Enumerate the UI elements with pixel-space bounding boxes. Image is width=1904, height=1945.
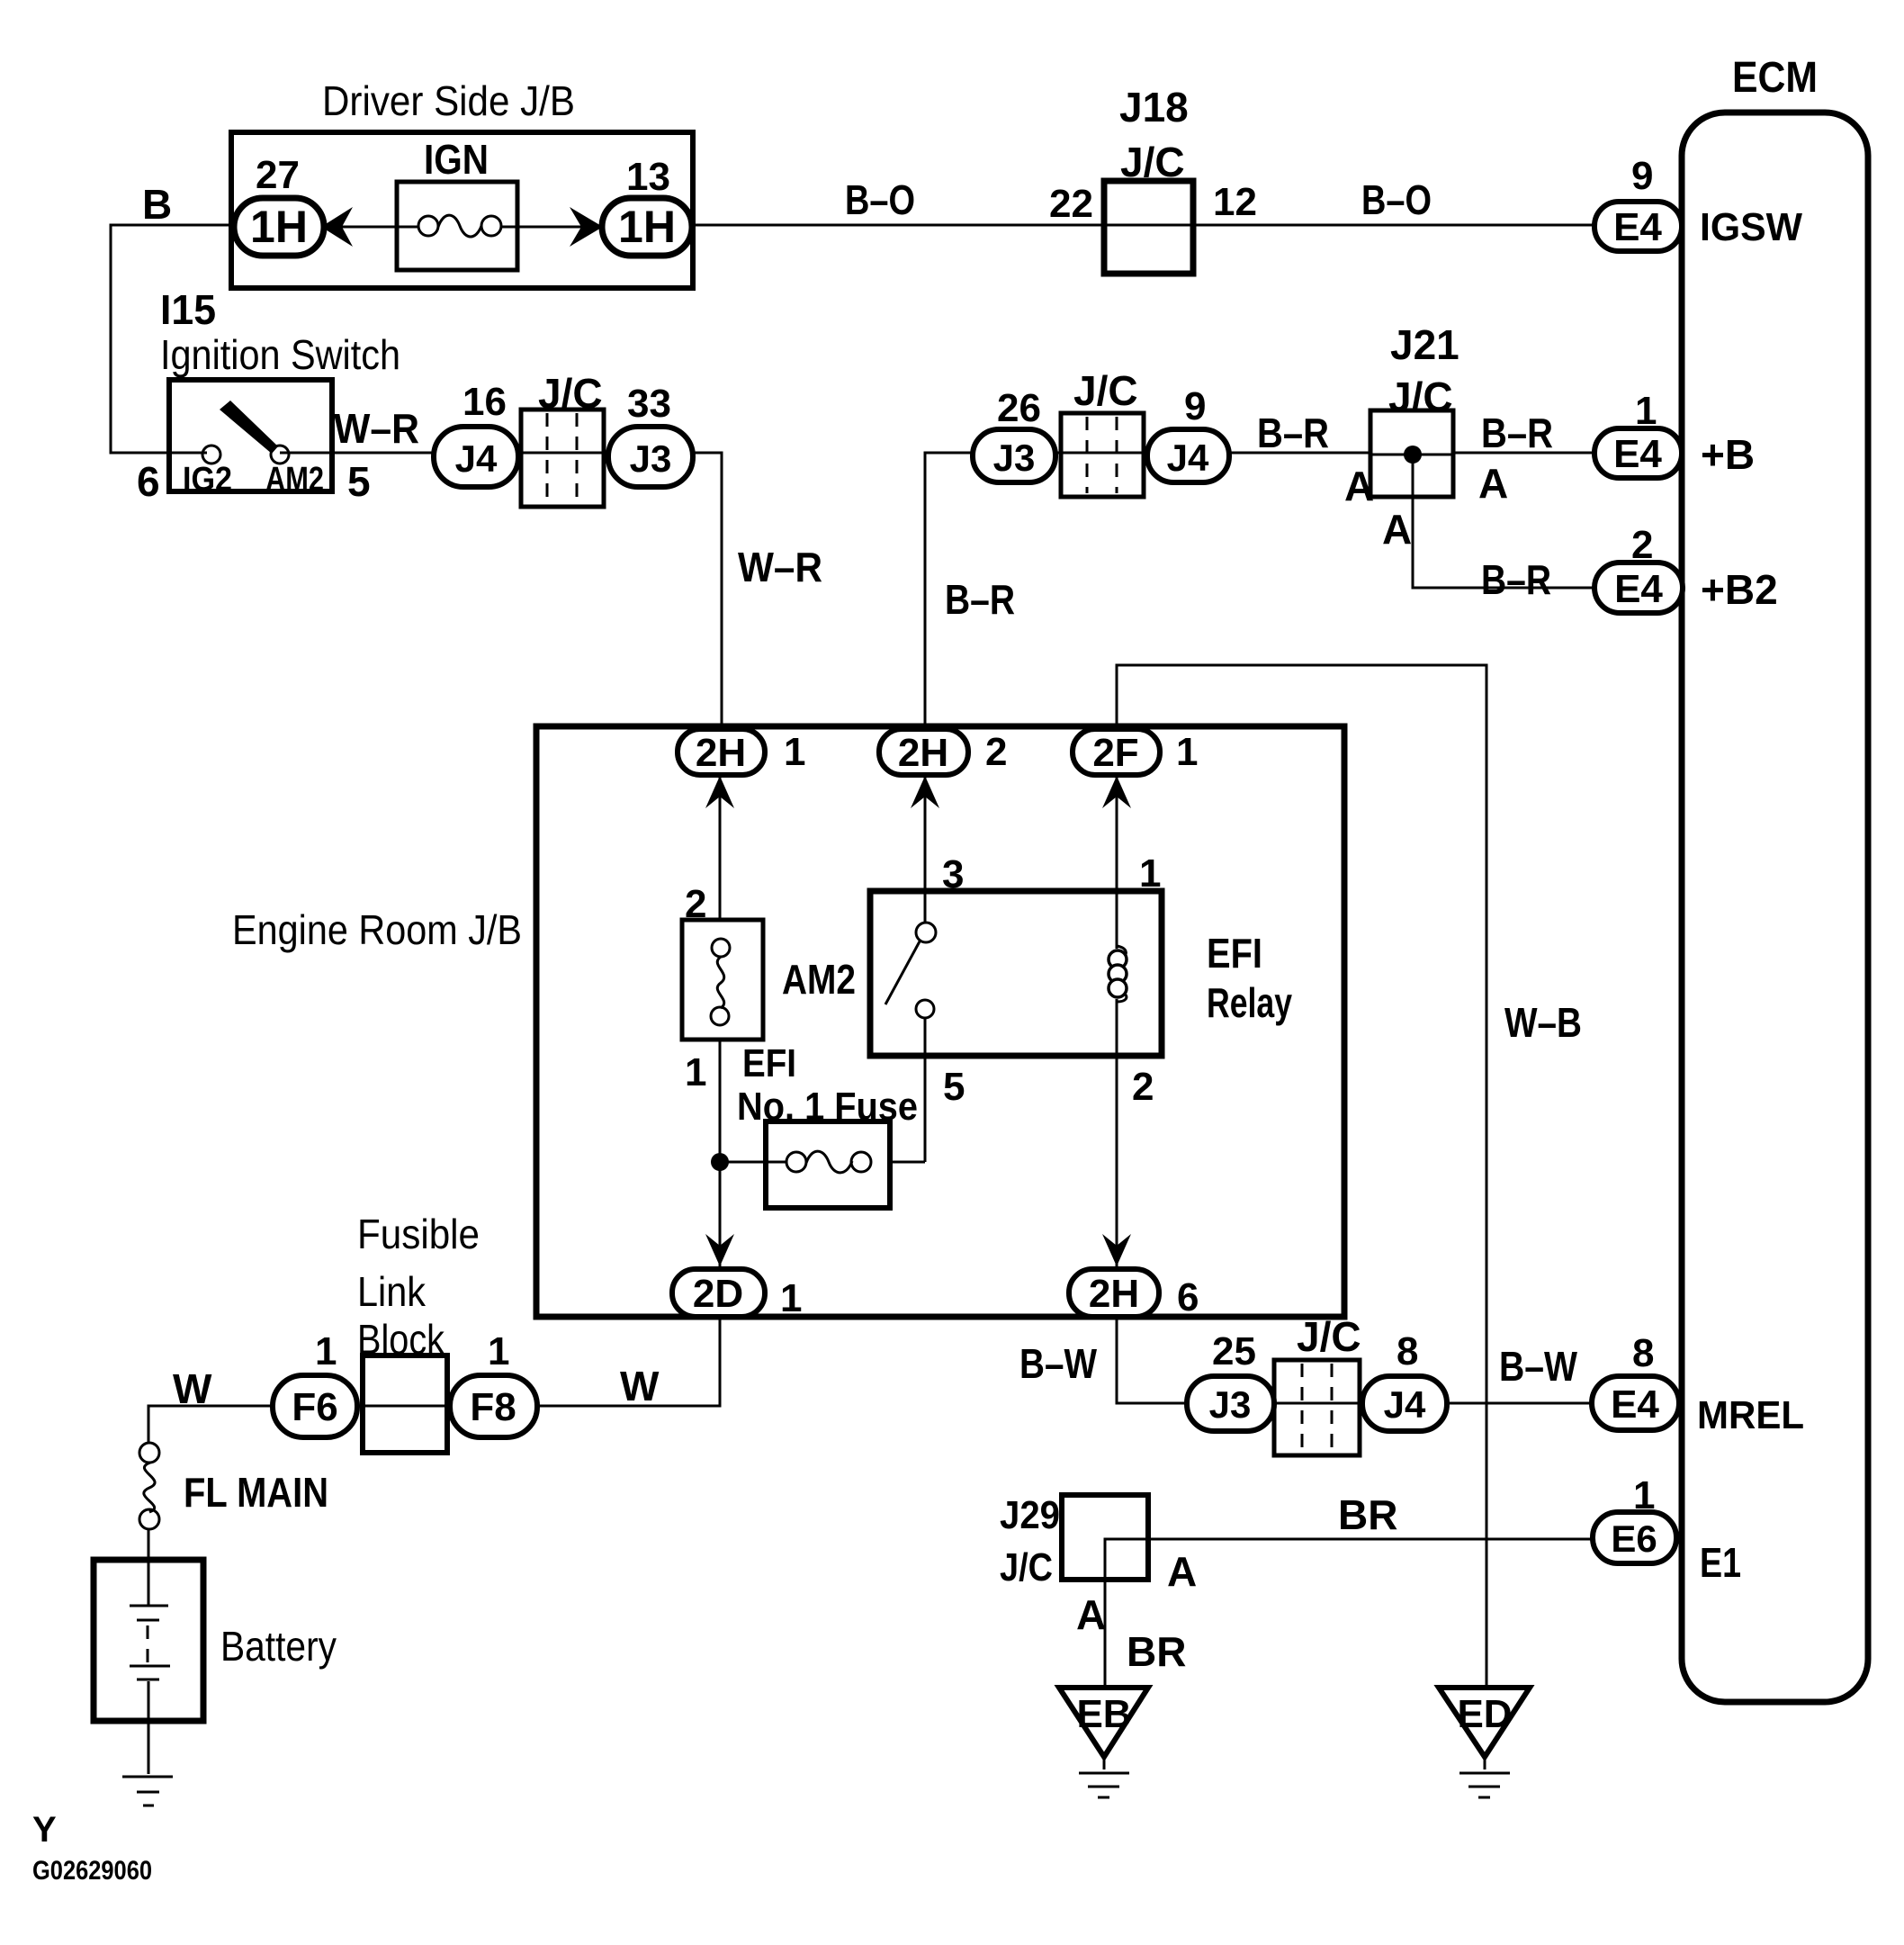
- svg-text:A: A: [1167, 1548, 1197, 1595]
- svg-text:8: 8: [1632, 1331, 1654, 1375]
- svg-text:J4: J4: [1167, 437, 1209, 479]
- junction J21 box: [1370, 410, 1453, 497]
- svg-text:F6: F6: [292, 1385, 337, 1429]
- wire W-R J3 down to 2H1: [691, 453, 722, 734]
- svg-text:B–R: B–R: [1481, 410, 1553, 456]
- svg-text:E4: E4: [1613, 432, 1662, 476]
- connector E6 pin1: [1593, 1512, 1676, 1563]
- svg-text:EB: EB: [1076, 1692, 1131, 1736]
- connector 2D pin1: [672, 1269, 765, 1317]
- svg-text:J/C: J/C: [1388, 374, 1453, 420]
- svg-text:2: 2: [1631, 523, 1653, 567]
- wire ignition switch AM2 to J4: [280, 452, 436, 455]
- svg-text:ECM: ECM: [1732, 54, 1818, 102]
- dashes J/C 16-33: [546, 413, 549, 503]
- svg-text:FL MAIN: FL MAIN: [184, 1469, 328, 1516]
- svg-text:+B2: +B2: [1701, 566, 1778, 613]
- connector J3 pin33: [608, 427, 693, 487]
- svg-text:1: 1: [1176, 730, 1198, 774]
- svg-text:J/C: J/C: [538, 370, 603, 417]
- svg-text:Y: Y: [32, 1810, 57, 1850]
- ignition switch lever: [220, 401, 278, 454]
- svg-text:2: 2: [685, 882, 706, 926]
- connector J3 pin25: [1187, 1376, 1274, 1431]
- EFI relay coil: [1117, 946, 1126, 957]
- arrow up at 2H2: [911, 776, 939, 808]
- svg-text:1: 1: [488, 1329, 509, 1373]
- svg-text:27: 27: [256, 153, 300, 197]
- svg-text:B–R: B–R: [1481, 556, 1551, 603]
- svg-text:W–R: W–R: [738, 544, 822, 590]
- junction J29 box: [1062, 1495, 1148, 1580]
- wire inside driver JB right: [501, 226, 603, 229]
- svg-text:B–R: B–R: [1257, 410, 1329, 456]
- svg-text:25: 25: [1212, 1329, 1256, 1373]
- IGN fuse box: [397, 182, 517, 270]
- svg-text:Engine Room J/B: Engine Room J/B: [232, 906, 522, 953]
- svg-text:J/C: J/C: [1000, 1545, 1053, 1589]
- svg-text:Driver Side J/B: Driver Side J/B: [322, 77, 575, 124]
- connector F6 pin1: [273, 1375, 357, 1437]
- dashes J/C 26-9: [1086, 417, 1089, 493]
- wire 2H2 down to relay pin3: [924, 775, 927, 891]
- connector 2H pin2: [879, 729, 968, 775]
- wire pin5 to EFI fuse: [890, 1161, 925, 1164]
- svg-text:2D: 2D: [693, 1272, 743, 1316]
- junction dot EFI fuse tee: [711, 1153, 729, 1171]
- wire 2F down to relay pin1 coil: [1116, 775, 1118, 949]
- connector E4 pin9 IGSW: [1594, 202, 1682, 251]
- ECM box: [1682, 113, 1868, 1702]
- svg-text:13: 13: [626, 155, 670, 199]
- svg-text:E4: E4: [1614, 567, 1663, 611]
- svg-text:ED: ED: [1457, 1692, 1512, 1736]
- connector J4 pin9: [1147, 429, 1229, 482]
- svg-text:1: 1: [780, 1276, 802, 1320]
- svg-text:IG2: IG2: [183, 461, 232, 499]
- junction J/C 26-9 box: [1061, 413, 1144, 497]
- wire through J21: [1370, 454, 1453, 456]
- wire B-W J4-8 to E4 MREL: [1444, 1402, 1594, 1405]
- svg-text:BR: BR: [1338, 1491, 1397, 1538]
- battery cell plates: [148, 1560, 150, 1606]
- ignition switch IG2 contact: [202, 446, 220, 464]
- svg-text:W: W: [620, 1363, 660, 1409]
- svg-text:A: A: [1478, 460, 1508, 507]
- svg-text:W–R: W–R: [334, 405, 419, 452]
- svg-text:E4: E4: [1611, 1382, 1659, 1427]
- svg-text:Fusible: Fusible: [357, 1211, 480, 1257]
- wire AM2 fuse down to 2D: [719, 1040, 722, 1271]
- svg-text:J3: J3: [993, 437, 1036, 479]
- svg-text:W: W: [173, 1365, 212, 1412]
- svg-text:6: 6: [1177, 1275, 1199, 1319]
- svg-text:1H: 1H: [250, 202, 308, 252]
- svg-text:3: 3: [942, 852, 964, 896]
- IGN fuse symbol: [418, 216, 438, 236]
- svg-text:6: 6: [137, 458, 160, 505]
- svg-text:J29: J29: [1000, 1493, 1060, 1537]
- svg-text:2: 2: [985, 730, 1007, 774]
- wire switch contact down to pin5: [924, 1018, 927, 1162]
- connector J3 pin26: [973, 429, 1055, 482]
- svg-text:B–W: B–W: [1019, 1340, 1097, 1387]
- wire relay pin3 to switch contact: [924, 891, 927, 923]
- svg-text:Relay: Relay: [1207, 979, 1292, 1026]
- EFI relay switch lever: [885, 941, 920, 1004]
- svg-text:B–O: B–O: [845, 176, 915, 223]
- EFI relay box: [870, 891, 1162, 1056]
- svg-text:EFI: EFI: [1207, 930, 1262, 977]
- ignition switch I15 box: [169, 380, 332, 491]
- wire through fusible link block: [355, 1405, 453, 1408]
- ground ED triangle: [1439, 1688, 1530, 1757]
- svg-text:EFI: EFI: [742, 1041, 796, 1085]
- arrow down at 2H6: [1102, 1234, 1131, 1266]
- svg-text:9: 9: [1184, 384, 1206, 428]
- connector 1H pin27: [234, 198, 324, 256]
- svg-text:W–B: W–B: [1504, 999, 1582, 1046]
- svg-text:2H: 2H: [898, 731, 948, 775]
- svg-text:A: A: [1382, 506, 1412, 553]
- svg-text:Ignition Switch: Ignition Switch: [160, 331, 400, 378]
- svg-text:J/C: J/C: [1073, 367, 1138, 414]
- dashes J/C 25-8: [1301, 1364, 1304, 1452]
- connector 2F pin1: [1073, 729, 1160, 775]
- wire B-R J21 to E4 +B: [1453, 452, 1597, 455]
- arrow up at 2H1: [705, 776, 734, 808]
- svg-text:B–W: B–W: [1499, 1343, 1577, 1390]
- svg-text:E6: E6: [1611, 1517, 1657, 1560]
- arrow right at 1H 13: [570, 207, 603, 247]
- svg-text:1: 1: [1139, 851, 1161, 896]
- svg-text:E4: E4: [1613, 205, 1662, 249]
- wire 2H1 down to AM2 fuse: [719, 775, 722, 920]
- svg-text:1: 1: [685, 1050, 706, 1094]
- wire junction dot to EFI fuse left: [720, 1161, 786, 1164]
- svg-text:12: 12: [1213, 180, 1257, 224]
- wire 2F loop to W-B down to ED: [1117, 665, 1486, 1688]
- svg-text:F8: F8: [470, 1385, 516, 1429]
- wire FL MAIN to battery: [148, 1528, 150, 1606]
- ignition switch AM2 contact: [271, 446, 289, 464]
- svg-text:Block: Block: [357, 1316, 445, 1363]
- wire W F8 to 2D: [534, 1317, 720, 1406]
- battery box: [94, 1560, 203, 1721]
- connector E4 pin8 MREL: [1592, 1376, 1679, 1430]
- svg-text:J4: J4: [455, 437, 498, 480]
- connector 2H pin6: [1069, 1269, 1159, 1317]
- junction dot J21: [1404, 446, 1422, 464]
- svg-text:2F: 2F: [1092, 731, 1138, 775]
- arrow up at 2F1: [1102, 776, 1131, 808]
- svg-text:BR: BR: [1127, 1628, 1186, 1675]
- svg-text:AM2: AM2: [265, 461, 324, 499]
- svg-text:I15: I15: [160, 286, 216, 333]
- svg-text:J21: J21: [1390, 321, 1459, 368]
- svg-text:1: 1: [1633, 1473, 1655, 1517]
- junction J18 box: [1104, 181, 1193, 274]
- svg-text:A: A: [1076, 1591, 1106, 1638]
- wire W battery to F6: [148, 1406, 275, 1443]
- svg-text:G02629060: G02629060: [32, 1856, 152, 1886]
- connector J4 pin8: [1362, 1376, 1447, 1431]
- svg-text:J3: J3: [630, 437, 672, 480]
- svg-text:AM2: AM2: [782, 956, 856, 1003]
- svg-text:5: 5: [943, 1065, 965, 1109]
- svg-text:2H: 2H: [1089, 1272, 1139, 1316]
- wire coil pin2 down to 2H6: [1116, 999, 1118, 1269]
- svg-text:J4: J4: [1384, 1383, 1426, 1426]
- arrow left at 1H 27: [321, 207, 353, 247]
- connector E4 pin1 +B: [1594, 428, 1682, 478]
- wire B-R J21-A down to E4 +B2: [1413, 455, 1597, 588]
- svg-text:E1: E1: [1700, 1539, 1741, 1586]
- wire through J/C 16-33: [515, 452, 612, 455]
- svg-text:IGSW: IGSW: [1700, 205, 1802, 249]
- AM2 fuse box: [682, 920, 763, 1040]
- svg-text:Battery: Battery: [220, 1623, 337, 1670]
- svg-text:26: 26: [997, 386, 1041, 430]
- svg-text:2: 2: [1132, 1065, 1154, 1109]
- svg-text:2H: 2H: [696, 731, 746, 775]
- svg-text:B–O: B–O: [1361, 176, 1432, 223]
- svg-text:9: 9: [1631, 154, 1653, 198]
- connector J4 pin16: [434, 427, 518, 487]
- arrow down at 2D: [705, 1234, 734, 1266]
- svg-text:16: 16: [463, 380, 507, 424]
- wire 2H6 down to J3-25 B-W: [1117, 1316, 1190, 1403]
- svg-text:33: 33: [627, 382, 671, 426]
- wire J29 BR to E6: [1105, 1539, 1595, 1688]
- svg-text:1: 1: [315, 1329, 337, 1373]
- wire inside driver JB left: [324, 226, 418, 229]
- connector F8 pin1: [450, 1375, 537, 1437]
- wire B row top: [111, 225, 234, 453]
- Engine Room J/B box: [536, 726, 1344, 1317]
- svg-text:No. 1 Fuse: No. 1 Fuse: [737, 1085, 918, 1129]
- connector 2H pin1: [678, 729, 765, 775]
- ground EB triangle: [1059, 1688, 1148, 1757]
- wire B-R 2H2 up to J3-26: [925, 453, 975, 731]
- junction J/C 25-8 box: [1274, 1360, 1360, 1455]
- svg-text:5: 5: [347, 458, 371, 505]
- svg-text:1: 1: [1635, 389, 1657, 433]
- svg-text:J/C: J/C: [1297, 1313, 1361, 1360]
- svg-text:J/C: J/C: [1120, 139, 1185, 185]
- Driver Side J/B box: [231, 132, 693, 288]
- FL MAIN fusible link: [139, 1443, 159, 1463]
- svg-text:1: 1: [784, 730, 805, 774]
- svg-text:B–R: B–R: [945, 576, 1015, 623]
- wire battery to ground: [148, 1681, 150, 1774]
- svg-text:8: 8: [1397, 1329, 1418, 1373]
- wire B-O 1H to J18: [692, 224, 1104, 227]
- svg-text:J3: J3: [1209, 1383, 1252, 1426]
- junction J/C 16-33 box: [521, 410, 604, 507]
- EFI No.1 fuse symbol: [786, 1152, 806, 1172]
- ground battery: [122, 1776, 173, 1778]
- connector 1H pin13: [602, 198, 692, 256]
- svg-text:J18: J18: [1119, 84, 1189, 131]
- wire through J/C 25-8: [1269, 1402, 1365, 1405]
- EFI relay switch contacts: [916, 923, 936, 942]
- svg-text:MREL: MREL: [1697, 1393, 1804, 1437]
- svg-text:IGN: IGN: [424, 136, 489, 183]
- connector E4 pin2 +B2: [1594, 563, 1683, 613]
- fusible link block box: [363, 1355, 447, 1453]
- AM2 fuse symbol: [712, 939, 730, 957]
- wire B-R J4-9 to J21: [1226, 452, 1370, 455]
- svg-text:22: 22: [1049, 182, 1093, 226]
- EFI No.1 fuse box: [766, 1121, 890, 1208]
- svg-text:1H: 1H: [618, 202, 676, 252]
- svg-text:A: A: [1344, 463, 1374, 509]
- svg-text:Link: Link: [357, 1268, 427, 1315]
- wire B-O through J18 to E4 IGSW: [1104, 224, 1597, 227]
- svg-text:+B: +B: [1701, 431, 1755, 478]
- svg-text:B: B: [142, 181, 172, 228]
- wire through J/C 26-9: [1053, 452, 1152, 455]
